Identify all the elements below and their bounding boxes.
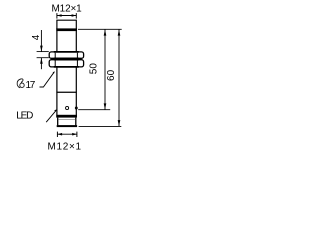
sensing face cap	[57, 20, 76, 29]
svg-text:M12×1: M12×1	[48, 141, 82, 152]
connector left edge	[57, 118, 59, 126]
svg-text:60: 60	[106, 69, 117, 81]
top extension line (reference)	[78, 28, 122, 30]
dimension M12 bottom: left tick	[56, 132, 58, 137]
dimension 60: down arrow	[118, 120, 121, 126]
extension line 50 bottom	[78, 109, 110, 111]
svg-text:LED: LED	[16, 110, 33, 121]
connector inner line	[58, 119, 75, 121]
dimension 4: lower extension line	[37, 57, 49, 59]
body right edge	[75, 67, 77, 92]
dimension 4: dim line lower part	[40, 58, 42, 69]
connector top thick bar	[56, 115, 77, 118]
body division line	[56, 91, 76, 93]
LED circle	[66, 106, 69, 109]
rear housing right edge	[75, 92, 77, 115]
barrel left edge	[56, 31, 58, 52]
dimension 50: up arrow	[104, 29, 107, 35]
dimension 50: down arrow	[104, 103, 107, 109]
dimension M12 bottom: left arrow	[57, 133, 62, 136]
nut 2	[49, 60, 83, 67]
svg-text:M12×1: M12×1	[52, 4, 83, 15]
rear housing left edge	[56, 92, 58, 115]
dimension 60: up arrow	[118, 29, 121, 35]
dimension 60: line	[118, 29, 120, 126]
dimension 4: up arrow	[40, 58, 43, 64]
svg-text:4: 4	[31, 34, 42, 40]
dimension 4: upper extension line	[37, 51, 49, 53]
dimension M12 top: left arrow	[57, 14, 62, 17]
LED nub on right edge	[75, 107, 77, 109]
dimension M12 top: left extension tick	[56, 13, 58, 19]
leader 17	[40, 72, 55, 87]
active face thick bar	[56, 28, 77, 31]
svg-text:17: 17	[26, 80, 36, 91]
extension line 60 bottom	[79, 125, 122, 127]
barrel right edge	[75, 31, 77, 52]
nut 1	[49, 52, 83, 58]
dimension M12 top: right extension tick	[75, 13, 77, 19]
dimension M12 bottom: right arrow	[72, 133, 77, 136]
dimension 50: line	[104, 29, 106, 109]
svg-text:50: 50	[89, 63, 100, 75]
dimension M12 bottom: right tick	[76, 132, 78, 137]
leader LED	[46, 110, 56, 122]
dimension M12 top: line	[57, 15, 76, 17]
dimension M12 bottom: line	[57, 133, 77, 135]
connector right edge	[75, 118, 77, 126]
dimension 4: down arrow	[40, 46, 43, 52]
wrench symbol	[17, 79, 24, 88]
body left edge	[56, 67, 58, 92]
dimension 4: dim line upper part	[40, 30, 42, 52]
dimension M12 top: right arrow	[72, 14, 77, 17]
connector bottom thick edge	[57, 125, 77, 127]
